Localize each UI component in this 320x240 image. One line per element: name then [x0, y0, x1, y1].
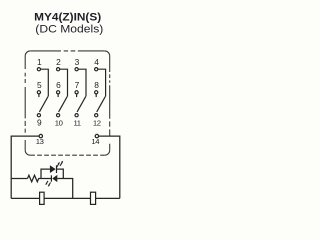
svg-text:(DC Models): (DC Models): [35, 23, 103, 35]
svg-text:6: 6: [56, 80, 61, 90]
svg-text:2: 2: [56, 57, 61, 67]
svg-text:4: 4: [94, 57, 99, 67]
svg-text:10: 10: [55, 118, 63, 127]
svg-text:14: 14: [91, 137, 100, 146]
svg-text:9: 9: [37, 117, 42, 127]
svg-text:7: 7: [75, 80, 80, 90]
svg-text:12: 12: [93, 118, 101, 127]
svg-text:5: 5: [37, 80, 42, 90]
svg-text:3: 3: [75, 57, 80, 67]
svg-text:13: 13: [36, 137, 44, 146]
svg-text:11: 11: [74, 118, 81, 127]
svg-text:8: 8: [94, 80, 99, 90]
svg-text:1: 1: [37, 57, 42, 67]
svg-text:MY4(Z)IN(S): MY4(Z)IN(S): [34, 12, 101, 24]
